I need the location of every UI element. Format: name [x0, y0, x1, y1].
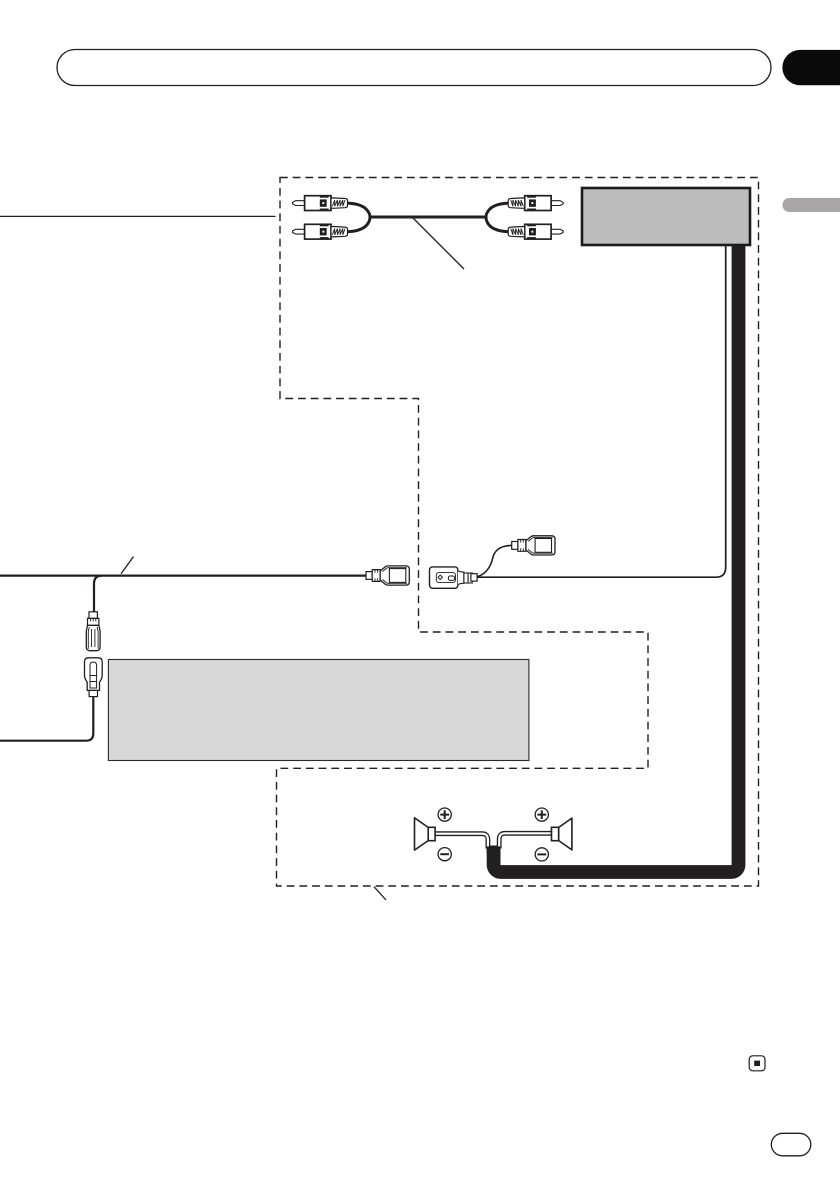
note icon: square bullet [749, 1056, 765, 1071]
RCA plug top-left [293, 196, 348, 211]
male bullet connector (vertical) [86, 612, 100, 651]
power cord (thick cable) from head unit to bottom [494, 246, 739, 872]
antenna lead thin wire from head unit [477, 246, 726, 577]
ground wire from bullet connector to page edge [0, 697, 93, 741]
right speaker plus marker [535, 808, 548, 821]
male spade terminal on left wire [366, 566, 409, 585]
female bullet connector (vertical) [85, 658, 103, 697]
section tab gray [782, 198, 840, 212]
RCA cable: left U loop [347, 203, 370, 232]
right speaker minus marker [535, 848, 548, 861]
page corner tab black [782, 50, 840, 85]
left speaker plus marker [438, 808, 451, 821]
female spade terminal [430, 567, 478, 588]
right speaker wire [499, 833, 552, 848]
antenna male spade connector [512, 536, 555, 555]
RCA cable: right U loop [486, 203, 509, 232]
left long wire to male spade [0, 574, 366, 576]
left speaker minus marker [438, 848, 451, 861]
RCA plug top-right [508, 196, 563, 211]
title banner [57, 50, 771, 86]
left speaker wire [435, 834, 488, 849]
leader tick on left wire [121, 557, 134, 574]
RCA cable: main run [370, 216, 486, 219]
head unit (gray box) [582, 188, 750, 245]
amplifier note box (gray) [108, 660, 529, 761]
branch wire down to bullet connector [94, 576, 102, 612]
leader line from page edge to connection box [0, 215, 276, 217]
leader tick on speaker box [374, 887, 386, 900]
speaker cable junction blob [487, 846, 501, 854]
right speaker [552, 818, 572, 850]
RCA plug bottom-left [293, 224, 348, 239]
dashed boundary of connection diagram [277, 178, 759, 887]
page number oval [771, 1133, 811, 1156]
RCA plug bottom-right [508, 224, 563, 239]
wire from female spade up to antenna connector [477, 545, 511, 576]
left speaker [415, 818, 436, 850]
leader tick on RCA cable [413, 218, 464, 269]
